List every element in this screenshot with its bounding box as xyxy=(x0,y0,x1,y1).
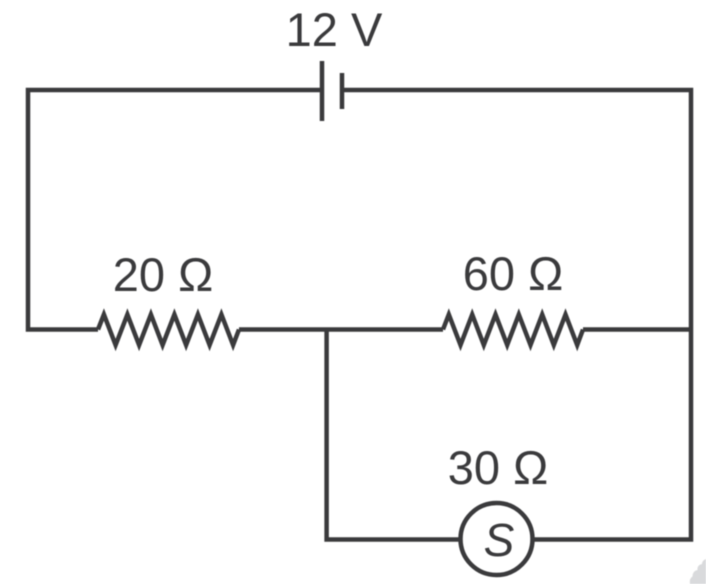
svg-text:30 Ω: 30 Ω xyxy=(448,441,548,494)
svg-text:S: S xyxy=(484,514,515,566)
svg-text:20 Ω: 20 Ω xyxy=(113,248,213,301)
svg-text:60 Ω: 60 Ω xyxy=(463,247,563,300)
svg-text:12 V: 12 V xyxy=(286,3,383,56)
